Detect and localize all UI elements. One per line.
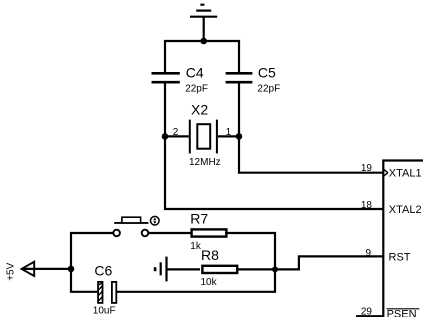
capacitor C5 xyxy=(226,73,253,82)
resistor R8 xyxy=(202,266,237,273)
pin name PSEN (with overline) xyxy=(387,309,420,317)
wire bottom horizontal (C6 right to vertical) xyxy=(117,291,277,293)
svg-text:C6: C6 xyxy=(94,263,112,279)
wire button right to R7 xyxy=(148,232,191,234)
svg-text:R8: R8 xyxy=(201,247,219,263)
svg-text:19: 19 xyxy=(361,163,373,174)
wire top horizontal xyxy=(164,40,240,42)
wire +5V stub xyxy=(23,268,73,270)
svg-text:PSEN: PSEN xyxy=(387,309,417,317)
wire right branch lower + XTAL1 horizontal xyxy=(239,83,383,173)
svg-text:1: 1 xyxy=(226,127,232,138)
clock input marker (XTAL1 pin) xyxy=(384,169,388,176)
wire +5V vertical / button left / bottom left xyxy=(71,233,113,292)
svg-text:XTAL1: XTAL1 xyxy=(389,167,422,179)
svg-text:12MHz: 12MHz xyxy=(189,157,221,168)
wire left branch upper (to C4) xyxy=(164,41,166,72)
IC U1 outline (left edge + top edge) xyxy=(383,161,423,317)
power terminal +5V xyxy=(22,262,35,276)
junction dot (+5V to vertical) xyxy=(68,266,75,273)
crystal X2 xyxy=(190,120,217,154)
junction dot (top ground to wire) xyxy=(200,38,207,45)
svg-text:18: 18 xyxy=(361,200,373,211)
svg-text:22pF: 22pF xyxy=(185,83,208,94)
wire R8 right to junction xyxy=(237,268,275,270)
wire right branch upper (to C5) xyxy=(238,41,240,72)
capacitor C6 (polarized) xyxy=(98,282,117,303)
svg-text:10uF: 10uF xyxy=(93,306,116,317)
junction dot (crystal pin 2) xyxy=(162,133,169,140)
junction dot (crystal pin 1) xyxy=(236,133,243,140)
wire ground to R8 xyxy=(167,268,201,270)
svg-text:10k: 10k xyxy=(201,277,218,288)
svg-text:22pF: 22pF xyxy=(257,83,280,94)
ground (top, pointing up) xyxy=(190,5,217,41)
wire crystal left stub xyxy=(165,135,189,137)
svg-text:2: 2 xyxy=(173,127,179,138)
wire RST step to IC xyxy=(275,256,383,269)
wire crystal right stub xyxy=(218,135,239,137)
svg-text:XTAL2: XTAL2 xyxy=(389,204,422,216)
pushbutton switch xyxy=(113,216,159,236)
svg-text:29: 29 xyxy=(361,307,373,317)
wire R7 right + vertical down to bottom wire xyxy=(225,233,275,292)
wire left branch lower + XTAL2 horizontal xyxy=(165,83,383,209)
junction dot (R7/R8/RST node) xyxy=(272,266,278,272)
resistor R7 xyxy=(192,229,227,236)
pin 29 stub xyxy=(356,315,383,317)
capacitor C4 xyxy=(152,73,180,82)
ground (left of R8, pointing left) xyxy=(155,257,166,282)
svg-text:C5: C5 xyxy=(258,64,276,80)
svg-text:X2: X2 xyxy=(191,102,208,118)
svg-text:R7: R7 xyxy=(190,211,208,227)
svg-text:+5V: +5V xyxy=(5,262,16,280)
svg-text:C4: C4 xyxy=(186,64,204,80)
svg-text:9: 9 xyxy=(365,248,371,259)
svg-text:RST: RST xyxy=(389,251,411,263)
